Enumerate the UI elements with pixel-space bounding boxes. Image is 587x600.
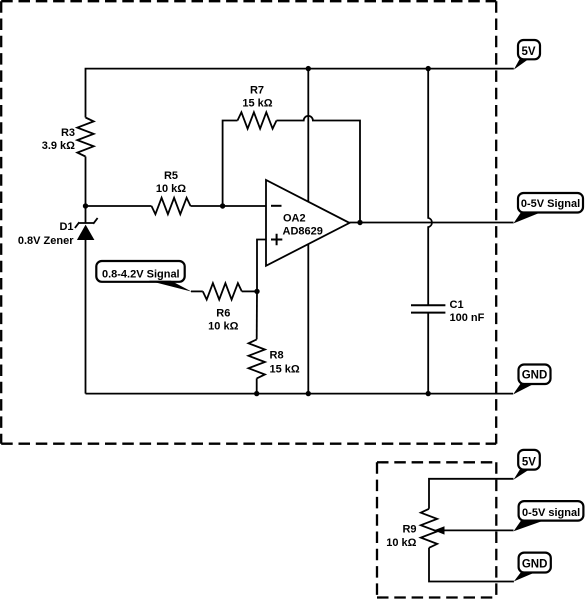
diode D1 zener cathode bar bbox=[75, 218, 98, 228]
wire: R6 to node D bbox=[242, 290, 257, 292]
svg-text:100 nF: 100 nF bbox=[450, 312, 485, 324]
wire: R8 to bottom rail bbox=[256, 378, 258, 393]
capacitor C1 bottom lead bbox=[427, 313, 429, 394]
wire: signal flag to R6 bbox=[191, 290, 203, 292]
node C junction dot (op-amp output) bbox=[357, 220, 362, 225]
dashed module boundary box 1 (amplifier block) bbox=[1, 1, 496, 444]
svg-text:0-5V signal: 0-5V signal bbox=[522, 507, 580, 519]
potentiometer R9 wiper arrow bbox=[443, 529, 514, 531]
net flag GND (bottom) box bbox=[519, 553, 551, 573]
node D junction dot bbox=[254, 289, 259, 294]
potentiometer R9 resistor body bbox=[421, 509, 437, 548]
wire: op-amp non-inverting input to node D bbox=[257, 240, 266, 292]
junction dot top rail / supply bbox=[306, 66, 311, 71]
op-amp inverting input minus sign bbox=[271, 205, 282, 207]
wire: R7 to feedback corner with hop over supply line bbox=[277, 116, 361, 223]
wire: op-amp output to 0-5V Signal flag bbox=[350, 222, 514, 224]
net flag 0-5V signal pointer bbox=[514, 521, 544, 532]
diode D1 anode triangle bbox=[77, 225, 95, 240]
svg-text:R7: R7 bbox=[250, 85, 264, 97]
svg-text:R8: R8 bbox=[270, 350, 284, 362]
svg-text:15 kΩ: 15 kΩ bbox=[242, 97, 272, 109]
op-amp non-inverting input plus sign bbox=[271, 234, 282, 245]
svg-text:0.8V Zener: 0.8V Zener bbox=[18, 235, 74, 247]
wire: op-amp negative supply segment bottom edge to GND rail bbox=[307, 244, 309, 393]
svg-text:R6: R6 bbox=[216, 308, 230, 320]
svg-text:3.9 kΩ: 3.9 kΩ bbox=[42, 140, 75, 152]
capacitor C1 plates bbox=[411, 305, 445, 312]
wire: R3 bottom to node A bbox=[85, 157, 87, 207]
capacitor C1 top lead with hop over output wire bbox=[428, 69, 432, 306]
node B junction dot bbox=[220, 203, 225, 208]
svg-text:15 kΩ: 15 kΩ bbox=[270, 364, 300, 376]
op-amp OA2 triangle bbox=[266, 180, 350, 266]
svg-text:GND: GND bbox=[522, 558, 548, 570]
svg-text:C1: C1 bbox=[450, 299, 464, 311]
resistor R5 bbox=[152, 198, 191, 214]
wire: R5 to op-amp inverting input, node B bbox=[191, 205, 267, 207]
net flag 5V (bottom) box bbox=[518, 450, 540, 470]
wire: R9 bottom lead bbox=[429, 548, 514, 582]
wire: node B up to R7 bbox=[223, 121, 238, 207]
svg-text:OA2: OA2 bbox=[283, 213, 306, 225]
svg-text:5V: 5V bbox=[522, 457, 536, 469]
wire: node A to R5 bbox=[86, 205, 152, 207]
svg-text:5V: 5V bbox=[521, 46, 535, 58]
flag pointer 0.8-4.2V Signal bbox=[149, 281, 192, 292]
junction dot C1 / bottom rail bbox=[426, 391, 431, 396]
net flag 0-5V Signal pointer bbox=[514, 212, 542, 223]
svg-text:10 kΩ: 10 kΩ bbox=[386, 537, 416, 549]
resistor R6 bbox=[203, 283, 242, 299]
net flag 5V (top) box bbox=[518, 40, 540, 59]
resistor R8 bbox=[249, 339, 265, 378]
svg-text:R9: R9 bbox=[402, 524, 416, 536]
wire: op-amp positive supply segment 5V rail to top edge bbox=[307, 69, 309, 202]
svg-text:10 kΩ: 10 kΩ bbox=[208, 321, 238, 333]
net flag GND box bbox=[519, 365, 551, 385]
dashed module boundary box 2 (potentiometer block) bbox=[377, 462, 496, 597]
net flag 5V (top) pointer bbox=[514, 59, 529, 70]
net flag GND (bottom) pointer bbox=[514, 572, 535, 581]
svg-text:R5: R5 bbox=[164, 170, 178, 182]
svg-text:D1: D1 bbox=[59, 221, 73, 233]
svg-text:R3: R3 bbox=[61, 127, 75, 139]
wire: node D down to R8 bbox=[256, 291, 258, 339]
junction dot R8 / bottom rail bbox=[254, 391, 259, 396]
junction dot bottom rail / supply bbox=[306, 391, 311, 396]
net flag GND pointer bbox=[513, 384, 534, 395]
wire: 5V top rail bbox=[86, 69, 514, 118]
resistor R7 bbox=[238, 112, 277, 128]
svg-text:GND: GND bbox=[522, 370, 548, 382]
svg-text:0-5V Signal: 0-5V Signal bbox=[521, 198, 580, 210]
net flag 5V (bottom) pointer bbox=[514, 470, 529, 480]
net flag 0-5V signal box bbox=[519, 501, 584, 520]
svg-text:10 kΩ: 10 kΩ bbox=[156, 183, 186, 195]
flag label 0.8-4.2V Signal box bbox=[96, 261, 184, 282]
resistor R3 bbox=[77, 118, 93, 157]
junction dot top rail / C1 bbox=[426, 66, 431, 71]
wire: R9 top lead bbox=[429, 479, 514, 509]
node A junction dot bbox=[83, 203, 88, 208]
net flag 0-5V Signal box bbox=[518, 193, 583, 213]
svg-text:0.8-4.2V Signal: 0.8-4.2V Signal bbox=[102, 268, 180, 280]
wire: node A through D1 to bottom rail bbox=[85, 206, 87, 394]
wire: GND bottom rail bbox=[86, 393, 514, 395]
svg-text:AD8629: AD8629 bbox=[283, 226, 323, 238]
